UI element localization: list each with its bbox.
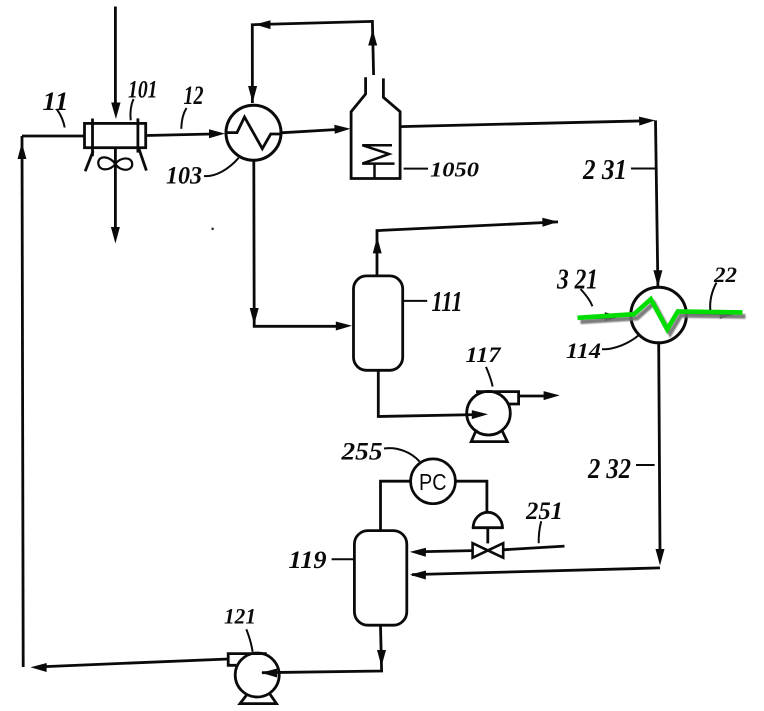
- stream 321-22 green highlighter: [578, 299, 743, 329]
- wire left recycle riser: [22, 136, 23, 667]
- wire exchanger 103 bottom down and into vessel 111: [254, 160, 340, 326]
- svg-text:119: 119: [289, 547, 328, 574]
- mixer M101 body: [85, 118, 147, 171]
- svg-text:3 21: 3 21: [556, 265, 598, 296]
- valve 251 actuator dome: [473, 512, 502, 527]
- wire stream 231 down to exchanger 114: [656, 120, 658, 287]
- wire mixer 101 bottom outlet: [114, 148, 117, 230]
- vessel 119: [354, 531, 406, 626]
- svg-text:2 32: 2 32: [587, 454, 631, 485]
- wire feed top into mixer 101: [114, 7, 117, 108]
- svg-text:PC: PC: [419, 469, 447, 495]
- pump 117: [467, 391, 519, 441]
- valve 251 body: [473, 543, 504, 558]
- wire stream 11 into mixer: [22, 135, 85, 138]
- svg-text:251: 251: [525, 498, 563, 525]
- wire valve to vessel 119: [425, 551, 473, 552]
- heat exchanger 103: [226, 105, 281, 160]
- svg-text:121: 121: [224, 604, 256, 629]
- svg-text:111: 111: [432, 286, 463, 318]
- mixer 101 propeller: [98, 157, 132, 169]
- svg-text:255: 255: [340, 439, 382, 466]
- svg-text:103: 103: [166, 163, 202, 190]
- wire stream 12 mixer to exchanger 103: [146, 134, 212, 136]
- wire pump 121 discharge to left riser: [45, 659, 228, 667]
- svg-text:117: 117: [466, 342, 502, 367]
- wire top loop: exchanger 103 up, across, down from flask 1050: [252, 21, 373, 103]
- flask 1050 internal coil: [362, 145, 394, 163]
- pump 121: [228, 653, 279, 704]
- wire supply line into valve 251: [503, 546, 564, 550]
- wire vessel 119 bottom to pump 121: [262, 625, 382, 672]
- exchanger 114 zigzag: [631, 299, 679, 329]
- wire vessel 111 overhead up and right: [377, 222, 558, 276]
- svg-text:2 31: 2 31: [582, 155, 627, 186]
- wire pump 117 discharge: [519, 395, 546, 398]
- wire exchanger 103 to flask 1050: [281, 130, 337, 133]
- vessel 111: [354, 276, 403, 370]
- heat exchanger 114: [631, 287, 687, 343]
- stream 321-22 highlighter shadow: [581, 303, 746, 333]
- flask 1050 drain stub: [373, 164, 376, 178]
- wire vessel 111 bottom to pump 117: [378, 370, 475, 417]
- wire stream 321 black under-line: [578, 316, 608, 319]
- wire flask 1050 to stream 231 corner: [400, 121, 642, 127]
- stray dot: [211, 228, 214, 231]
- wire stream 232 down from exchanger 114 and left into vessel 119: [659, 343, 660, 553]
- wire PC to vessel 119: [381, 481, 411, 530]
- svg-text:12: 12: [184, 81, 204, 110]
- separator flask 1050: [351, 77, 400, 178]
- wire stream 22 black under-line: [687, 311, 723, 315]
- svg-text:1050: 1050: [430, 157, 479, 181]
- controller PC 255: [411, 459, 456, 504]
- svg-text:11: 11: [43, 87, 69, 116]
- svg-text:114: 114: [566, 338, 601, 363]
- wire PC to valve actuator: [455, 481, 487, 512]
